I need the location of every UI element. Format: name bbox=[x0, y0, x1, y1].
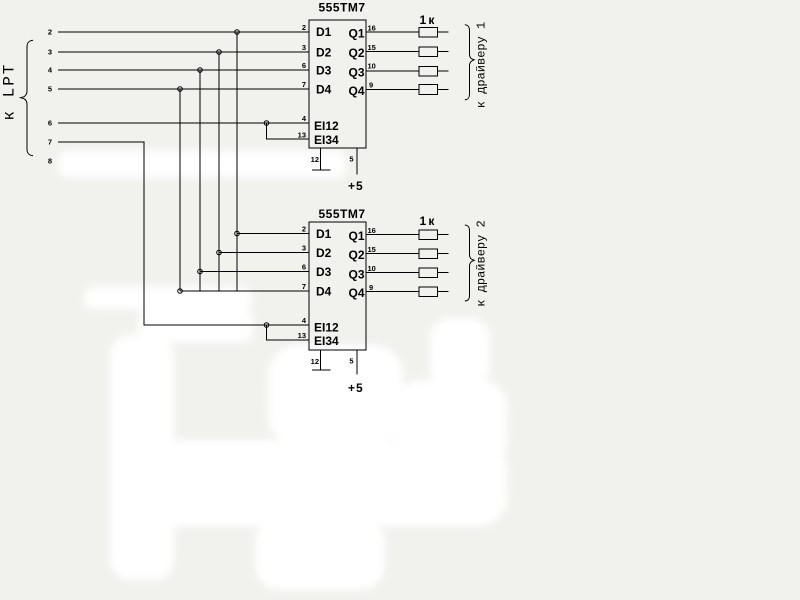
wire U2 D4 horizontal bbox=[180, 290, 309, 292]
wire U2 D3 horizontal bbox=[200, 271, 309, 273]
wire LPT5 horizontal to U1 D4 bbox=[58, 88, 309, 90]
junction U2 D4 corner bbox=[178, 289, 183, 294]
junction on LPT5 bbox=[178, 87, 183, 92]
svg-text:D2: D2 bbox=[316, 246, 332, 260]
wire U2 Q2 to resistor bbox=[366, 253, 448, 255]
svg-text:Q3: Q3 bbox=[349, 66, 365, 80]
svg-text:555TM7: 555TM7 bbox=[319, 1, 366, 15]
junction on LPT2 bbox=[235, 30, 240, 35]
svg-text:5: 5 bbox=[349, 155, 353, 164]
svg-text:Q1: Q1 bbox=[349, 229, 365, 243]
junction U2 D2 corner bbox=[217, 250, 222, 255]
svg-text:13: 13 bbox=[298, 331, 306, 340]
svg-text:Q2: Q2 bbox=[349, 46, 365, 60]
power U1 pin 5 +5 bbox=[356, 148, 358, 174]
svg-text:10: 10 bbox=[368, 264, 376, 273]
svg-text:+5: +5 bbox=[348, 381, 364, 395]
svg-text:15: 15 bbox=[368, 245, 376, 254]
junction on LPT3 bbox=[217, 50, 222, 55]
wire LPT4 horizontal to U1 D3 bbox=[58, 69, 309, 71]
svg-text:12: 12 bbox=[311, 357, 319, 366]
brace left LPT group bbox=[21, 40, 33, 155]
svg-text:15: 15 bbox=[368, 43, 376, 52]
wire LPT2 horizontal to U1 D1 bbox=[58, 31, 309, 33]
wire U2 EI34 branch bbox=[267, 325, 310, 340]
svg-text:16: 16 bbox=[368, 226, 376, 235]
svg-text:2: 2 bbox=[48, 28, 52, 37]
brace driver 1 group bbox=[465, 25, 474, 100]
svg-text:3: 3 bbox=[48, 48, 52, 57]
ground U1 pin 12 bbox=[320, 148, 322, 170]
svg-text:7: 7 bbox=[302, 80, 306, 89]
wire U2 Q3 to resistor bbox=[366, 272, 448, 274]
resistor R2 bbox=[419, 47, 438, 57]
ground U2 pin 12 bbox=[320, 350, 322, 370]
wire vertical from LPT4 tap to U2 D3 bbox=[199, 70, 201, 291]
svg-text:Q1: Q1 bbox=[349, 27, 365, 41]
wire vertical from LPT2 tap to U2 D1 bbox=[236, 32, 238, 291]
background white patches bbox=[58, 151, 507, 590]
wire U1 Q3 to resistor bbox=[366, 70, 448, 72]
wire vertical from LPT3 tap to U2 D2 bbox=[218, 52, 220, 291]
svg-text:10: 10 bbox=[368, 62, 376, 71]
wire U2 Q4 to resistor bbox=[366, 291, 448, 293]
svg-text:+5: +5 bbox=[348, 179, 364, 193]
svg-text:9: 9 bbox=[369, 283, 373, 292]
svg-text:D2: D2 bbox=[316, 45, 332, 59]
svg-text:3: 3 bbox=[302, 43, 306, 52]
resistor R6 bbox=[419, 249, 438, 259]
resistor R5 1k bbox=[419, 230, 438, 240]
svg-text:12: 12 bbox=[311, 155, 319, 164]
svg-text:Q2: Q2 bbox=[349, 248, 365, 262]
svg-text:к драйверу 1: к драйверу 1 bbox=[475, 22, 489, 108]
svg-text:5: 5 bbox=[48, 85, 52, 94]
svg-text:EI12: EI12 bbox=[314, 321, 339, 335]
svg-text:к LPT: к LPT bbox=[1, 63, 19, 121]
svg-text:D1: D1 bbox=[316, 227, 332, 241]
svg-text:D3: D3 bbox=[316, 64, 332, 78]
wire U1 EI34 branch bbox=[267, 123, 310, 139]
wire U1 Q2 to resistor bbox=[366, 51, 448, 53]
svg-text:5: 5 bbox=[349, 357, 353, 366]
resistor R7 bbox=[419, 268, 438, 278]
wire LPT7 horizontal then down to U2 EI12 bbox=[58, 142, 309, 325]
svg-text:Q4: Q4 bbox=[349, 84, 365, 98]
svg-text:6: 6 bbox=[302, 61, 306, 70]
svg-text:Q4: Q4 bbox=[349, 286, 365, 300]
svg-text:D3: D3 bbox=[316, 265, 332, 279]
resistor R4 bbox=[419, 85, 438, 95]
wire U2 D2 horizontal bbox=[219, 252, 309, 254]
wire U1 Q1 to resistor bbox=[366, 31, 448, 33]
svg-text:6: 6 bbox=[48, 119, 52, 128]
svg-text:D4: D4 bbox=[316, 284, 332, 298]
svg-text:8: 8 bbox=[48, 157, 52, 166]
svg-text:555TM7: 555TM7 bbox=[319, 207, 366, 221]
wire vertical from LPT5 tap to U2 D4 bbox=[179, 89, 181, 291]
wire LPT6 horizontal to U1 EI12 bbox=[58, 122, 309, 124]
junction U2 D1 corner bbox=[235, 231, 240, 236]
wire U2 Q1 to resistor bbox=[366, 234, 448, 236]
op chip U2 555TM7 body bbox=[309, 222, 366, 350]
svg-text:7: 7 bbox=[48, 138, 52, 147]
wire U2 D1 horizontal bbox=[237, 233, 309, 235]
svg-text:2: 2 bbox=[302, 23, 306, 32]
junction U2 D3 corner bbox=[198, 269, 203, 274]
svg-text:EI12: EI12 bbox=[314, 119, 339, 133]
junction on LPT6 for U1 EI34 bbox=[264, 121, 269, 126]
op chip U1 555TM7 body bbox=[309, 20, 366, 148]
svg-text:3: 3 bbox=[302, 244, 306, 253]
junction on U2 EI12 line bbox=[264, 323, 269, 328]
junction on LPT4 bbox=[198, 68, 203, 73]
svg-text:13: 13 bbox=[298, 131, 306, 140]
svg-text:к драйверу 2: к драйверу 2 bbox=[475, 220, 489, 306]
resistor R1 1k bbox=[419, 27, 438, 37]
wire LPT3 horizontal to U1 D2 bbox=[58, 51, 309, 53]
svg-text:1к: 1к bbox=[420, 13, 437, 27]
svg-text:16: 16 bbox=[368, 24, 376, 33]
svg-text:Q3: Q3 bbox=[349, 268, 365, 282]
svg-text:D1: D1 bbox=[316, 25, 332, 39]
power U2 pin 5 +5 bbox=[356, 350, 358, 374]
svg-text:7: 7 bbox=[302, 282, 306, 291]
svg-text:9: 9 bbox=[369, 81, 373, 90]
svg-text:D4: D4 bbox=[316, 82, 332, 96]
svg-text:EI34: EI34 bbox=[314, 334, 339, 348]
svg-text:6: 6 bbox=[302, 263, 306, 272]
svg-text:EI34: EI34 bbox=[314, 133, 339, 147]
wire U1 Q4 to resistor bbox=[366, 88, 448, 90]
svg-text:1к: 1к bbox=[420, 214, 437, 228]
resistor R3 bbox=[419, 66, 438, 76]
brace driver 2 group bbox=[465, 225, 474, 301]
svg-text:2: 2 bbox=[302, 225, 306, 234]
resistor R8 bbox=[419, 287, 438, 297]
